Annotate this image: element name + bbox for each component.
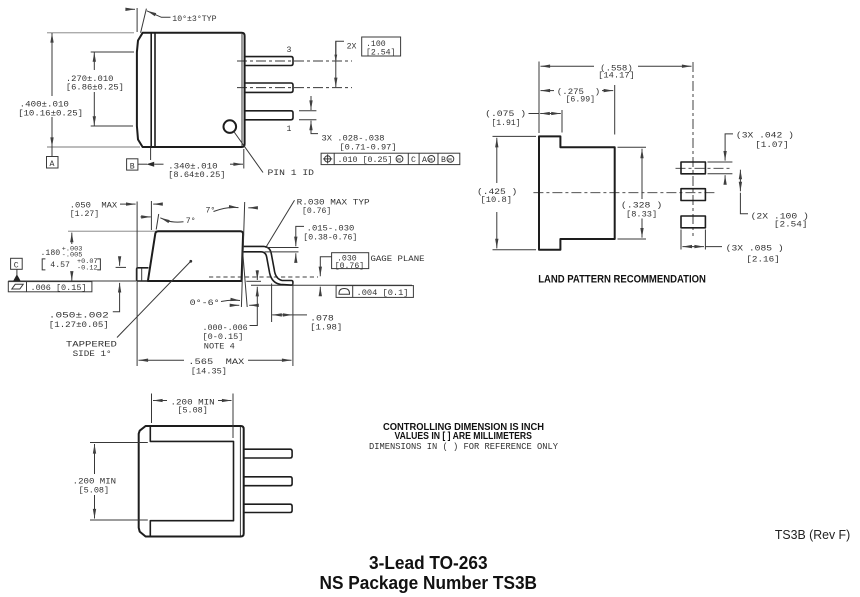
- svg-text:-0.12: -0.12: [77, 265, 98, 272]
- pad 1: [681, 162, 705, 174]
- svg-text:TAPPERED: TAPPERED: [66, 340, 117, 349]
- svg-text:[8.64±0.25]: [8.64±0.25]: [168, 170, 225, 180]
- svg-text:LAND PATTERN RECOMMENDATION: LAND PATTERN RECOMMENDATION: [538, 273, 706, 285]
- dim .270 extension line bottom: [91, 125, 133, 127]
- lead 1: [245, 111, 293, 120]
- svg-text:VALUES IN [ ] ARE MILLIMETERS: VALUES IN [ ] ARE MILLIMETERS: [395, 431, 532, 442]
- tab bend line inner: [150, 33, 152, 147]
- svg-text:B: B: [441, 156, 446, 165]
- dim .425 ext lines: [493, 135, 537, 137]
- dim .015-.030 arrows: [296, 226, 304, 246]
- dim 10 deg slanted line: [141, 9, 147, 33]
- svg-text:DIMENSIONS IN ( ) FOR REFERENC: DIMENSIONS IN ( ) FOR REFERENCE ONLY: [369, 442, 559, 452]
- dim 0-6 deg leader: [221, 300, 240, 301]
- svg-text:[1.07]: [1.07]: [755, 140, 789, 150]
- bottom view inner right line: [239, 427, 241, 536]
- svg-text:.565 MAX: .565 MAX: [188, 358, 244, 367]
- dim .078 dimension line: [272, 314, 292, 316]
- datum plane line left of body: [8, 280, 136, 282]
- dim 3X .042 ext lines: [708, 161, 733, 163]
- svg-text:[0.71-0.97]: [0.71-0.97]: [340, 142, 397, 152]
- land pattern horizontal centerline: [533, 192, 716, 194]
- pin 1 ID leader: [234, 132, 263, 173]
- dim 3X .028 arrow above: [310, 96, 312, 110]
- dim .200 left dimension line: [94, 444, 96, 474]
- dim .050 pm .002 arrow lower with elbow: [113, 283, 120, 312]
- svg-text:A: A: [422, 156, 427, 165]
- dim 2X .100 dimension line: [739, 170, 741, 192]
- svg-text:[2.16]: [2.16]: [746, 255, 780, 265]
- svg-text:C: C: [14, 262, 19, 271]
- svg-text:7°: 7°: [206, 207, 216, 216]
- svg-text:1: 1: [287, 125, 292, 134]
- svg-text:[6.86±0.25]: [6.86±0.25]: [66, 82, 124, 92]
- svg-text:[0.76]: [0.76]: [335, 261, 364, 271]
- svg-text:A: A: [50, 160, 55, 169]
- dim 3X .028 tick line bottom: [299, 119, 316, 121]
- dim .400 dimension line: [51, 33, 53, 96]
- svg-text:.010 [0.25]: .010 [0.25]: [338, 155, 393, 165]
- dim 7 deg right tick: [248, 207, 256, 209]
- dim .050 pm .002 tick: [116, 266, 126, 268]
- svg-text:[0-0.15]: [0-0.15]: [203, 332, 244, 342]
- svg-text:[14.35]: [14.35]: [191, 366, 227, 376]
- datum C box: [11, 258, 23, 270]
- dim .200 left ext lines: [90, 442, 148, 444]
- land pattern vertical centerline: [692, 62, 694, 236]
- body right edge inner line: [241, 34, 243, 146]
- lead 1 bottom view: [244, 449, 292, 458]
- svg-text:[0.38-0.76]: [0.38-0.76]: [303, 233, 357, 243]
- gull-wing lead: [243, 246, 293, 285]
- svg-text:7°: 7°: [186, 217, 196, 226]
- second slanted line 0-6: [243, 252, 248, 307]
- dim .340 ext line right: [243, 149, 245, 169]
- svg-text:(.328 ): (.328 ): [621, 201, 662, 211]
- body right edge extension slanted: [241, 202, 244, 307]
- svg-text:[5.08]: [5.08]: [79, 486, 110, 496]
- svg-text:.006 [0.15]: .006 [0.15]: [31, 283, 87, 293]
- svg-text:3: 3: [287, 46, 292, 55]
- datum A target box: [47, 147, 59, 169]
- svg-text:[14.17]: [14.17]: [598, 71, 635, 81]
- dim .275 ext line right: [614, 85, 616, 135]
- dim 3X .028 tick line top: [299, 110, 316, 112]
- tab bend line outer: [154, 33, 156, 147]
- svg-text:.180: .180: [41, 249, 61, 258]
- svg-text:0°-6°: 0°-6°: [190, 299, 220, 308]
- svg-text:4.57: 4.57: [50, 261, 70, 270]
- svg-text:M: M: [429, 157, 433, 164]
- svg-text:.000-.006: .000-.006: [203, 324, 248, 333]
- dim .075 dimension line: [529, 113, 540, 115]
- pad 3: [681, 216, 705, 228]
- dim R.030 leader: [266, 200, 294, 246]
- dim .275 dimension line: [541, 90, 555, 92]
- feature control frame position: [321, 153, 460, 165]
- dim .558 dimension line: [541, 65, 595, 67]
- seating plane line: [251, 284, 412, 286]
- svg-text:.050±.002: .050±.002: [49, 312, 109, 321]
- dim 7 deg right leader: [214, 207, 239, 211]
- dim 3X .028 arrow below and leader: [311, 121, 318, 134]
- svg-text:3-Lead TO-263: 3-Lead TO-263: [369, 552, 488, 573]
- svg-text:.004 [0.1]: .004 [0.1]: [357, 288, 409, 298]
- dim .270 dimension line: [93, 52, 95, 70]
- dim 10 deg leader: [147, 11, 171, 17]
- dim .000-.006 lower arrow and leader to text: [250, 287, 258, 326]
- svg-text:[6.99]: [6.99]: [566, 94, 596, 104]
- dim .050 pm .002 arrow upper: [119, 257, 121, 266]
- svg-text:[5.08]: [5.08]: [177, 405, 207, 415]
- pad 1 centerline: [676, 167, 733, 169]
- tab pad outline: [539, 136, 615, 249]
- dim 10 deg ext vertical line: [136, 8, 138, 32]
- dim .200 top dimension line: [153, 400, 167, 402]
- tab inner line: [141, 268, 143, 280]
- svg-text:NS Package Number TS3B: NS Package Number TS3B: [320, 572, 538, 593]
- dim .400 extension line bottom: [47, 146, 140, 148]
- svg-text:10°±3°TYP: 10°±3°TYP: [172, 15, 216, 24]
- lead 2 bottom view: [244, 477, 292, 486]
- gage plane dashed line: [209, 276, 318, 278]
- lead 3 bottom view: [244, 504, 292, 512]
- svg-text:SIDE 1°: SIDE 1°: [73, 350, 112, 359]
- pad 2: [681, 189, 705, 201]
- svg-text:[1.27]: [1.27]: [70, 209, 99, 219]
- svg-text:(.075 ): (.075 ): [485, 109, 526, 119]
- dim 10 deg tick arrow: [127, 8, 136, 10]
- dim 3X .042 arrows: [725, 134, 733, 161]
- tab front small box: [137, 268, 148, 281]
- lead 2 centerline: [237, 87, 352, 89]
- ext line x152: [150, 201, 152, 230]
- svg-text:3X .028-.038: 3X .028-.038: [322, 135, 385, 144]
- svg-text:[1.27±0.05]: [1.27±0.05]: [49, 320, 109, 330]
- svg-text:[2.54]: [2.54]: [366, 48, 395, 58]
- svg-text:.400±.010: .400±.010: [20, 101, 69, 110]
- svg-text:[1.91]: [1.91]: [491, 118, 520, 128]
- svg-text:(3X .085 ): (3X .085 ): [726, 244, 784, 254]
- svg-text:2X: 2X: [347, 43, 357, 52]
- svg-text:TS3B (Rev F): TS3B (Rev F): [775, 527, 850, 542]
- svg-text:.078: .078: [310, 314, 334, 323]
- dim .000-.006 upper arrow to body bottom: [256, 270, 258, 280]
- flatness FCF: [8, 282, 92, 293]
- dim .030 leader arrows: [320, 257, 331, 276]
- dim .328 ext lines: [618, 146, 647, 148]
- dim .328 dimension line: [641, 149, 643, 199]
- dim .180 dimension line: [71, 233, 73, 244]
- tappered side leader: [117, 262, 191, 338]
- svg-text:[0.76]: [0.76]: [302, 206, 331, 216]
- package body outline: [137, 33, 245, 147]
- dim .200 top ext lines: [151, 394, 153, 424]
- dim .030 gage plane box: [332, 253, 369, 269]
- svg-text:NOTE 4: NOTE 4: [204, 342, 235, 351]
- svg-text:[8.33]: [8.33]: [626, 210, 657, 220]
- side body outline: [148, 231, 243, 281]
- exposed pad outline: [150, 426, 233, 537]
- dim .078 ext lines: [271, 284, 273, 323]
- dim .075 ext line right: [561, 110, 563, 133]
- dim .340 dimension line: [138, 163, 147, 165]
- dim .015-.030 ext lines: [266, 247, 299, 249]
- dim .270 extension line top: [91, 51, 134, 53]
- lead 2: [245, 83, 293, 92]
- svg-text:.340±.010: .340±.010: [168, 162, 217, 171]
- svg-text:C: C: [411, 156, 416, 165]
- dim 7 deg left ticks: [141, 216, 151, 218]
- svg-text:.015-.030: .015-.030: [307, 225, 355, 234]
- svg-text:PIN 1 ID: PIN 1 ID: [268, 169, 315, 178]
- dim .558 ext line left: [538, 62, 540, 134]
- dim .340 ext line left: [150, 148, 152, 160]
- bottom view body outline: [139, 426, 244, 537]
- dim 3X .085 dimension line: [682, 246, 704, 248]
- ext line x137 full: [136, 202, 138, 367]
- svg-text:[2.54]: [2.54]: [774, 220, 808, 230]
- dim .050 MAX arrows: [120, 203, 136, 205]
- dim 3X .085 ext lines: [680, 230, 682, 250]
- dim .425 dimension line: [496, 138, 498, 183]
- dim 0-6 ticks: [233, 304, 240, 306]
- dim .565 dimension line: [139, 359, 185, 361]
- pin 1 ID circle: [224, 120, 237, 133]
- svg-text:M: M: [448, 157, 452, 164]
- datum B box: [127, 159, 138, 172]
- svg-text:[10.8]: [10.8]: [481, 195, 513, 205]
- svg-text:(3X .042 ): (3X .042 ): [736, 131, 794, 141]
- body bottom extension tick: [246, 280, 261, 282]
- dim .100 basic box: [362, 37, 401, 56]
- ext line body top to left: [68, 230, 157, 232]
- datum C triangle: [13, 274, 20, 281]
- svg-text:.200 MIN: .200 MIN: [73, 477, 116, 486]
- seating plane FCF: [336, 286, 413, 298]
- svg-text:GAGE PLANE: GAGE PLANE: [371, 255, 425, 264]
- dim 7 deg left leader: [160, 218, 183, 222]
- svg-text:[1.98]: [1.98]: [310, 323, 342, 333]
- lead 3 centerline: [237, 60, 352, 62]
- svg-text:[10.16±0.25]: [10.16±0.25]: [18, 108, 83, 118]
- svg-text:M: M: [397, 157, 401, 164]
- lead 3: [245, 57, 293, 66]
- dim 2X .100 dimension line with elbow: [336, 41, 344, 60]
- svg-text:B: B: [130, 162, 135, 171]
- dim .400 extension line top: [47, 32, 134, 34]
